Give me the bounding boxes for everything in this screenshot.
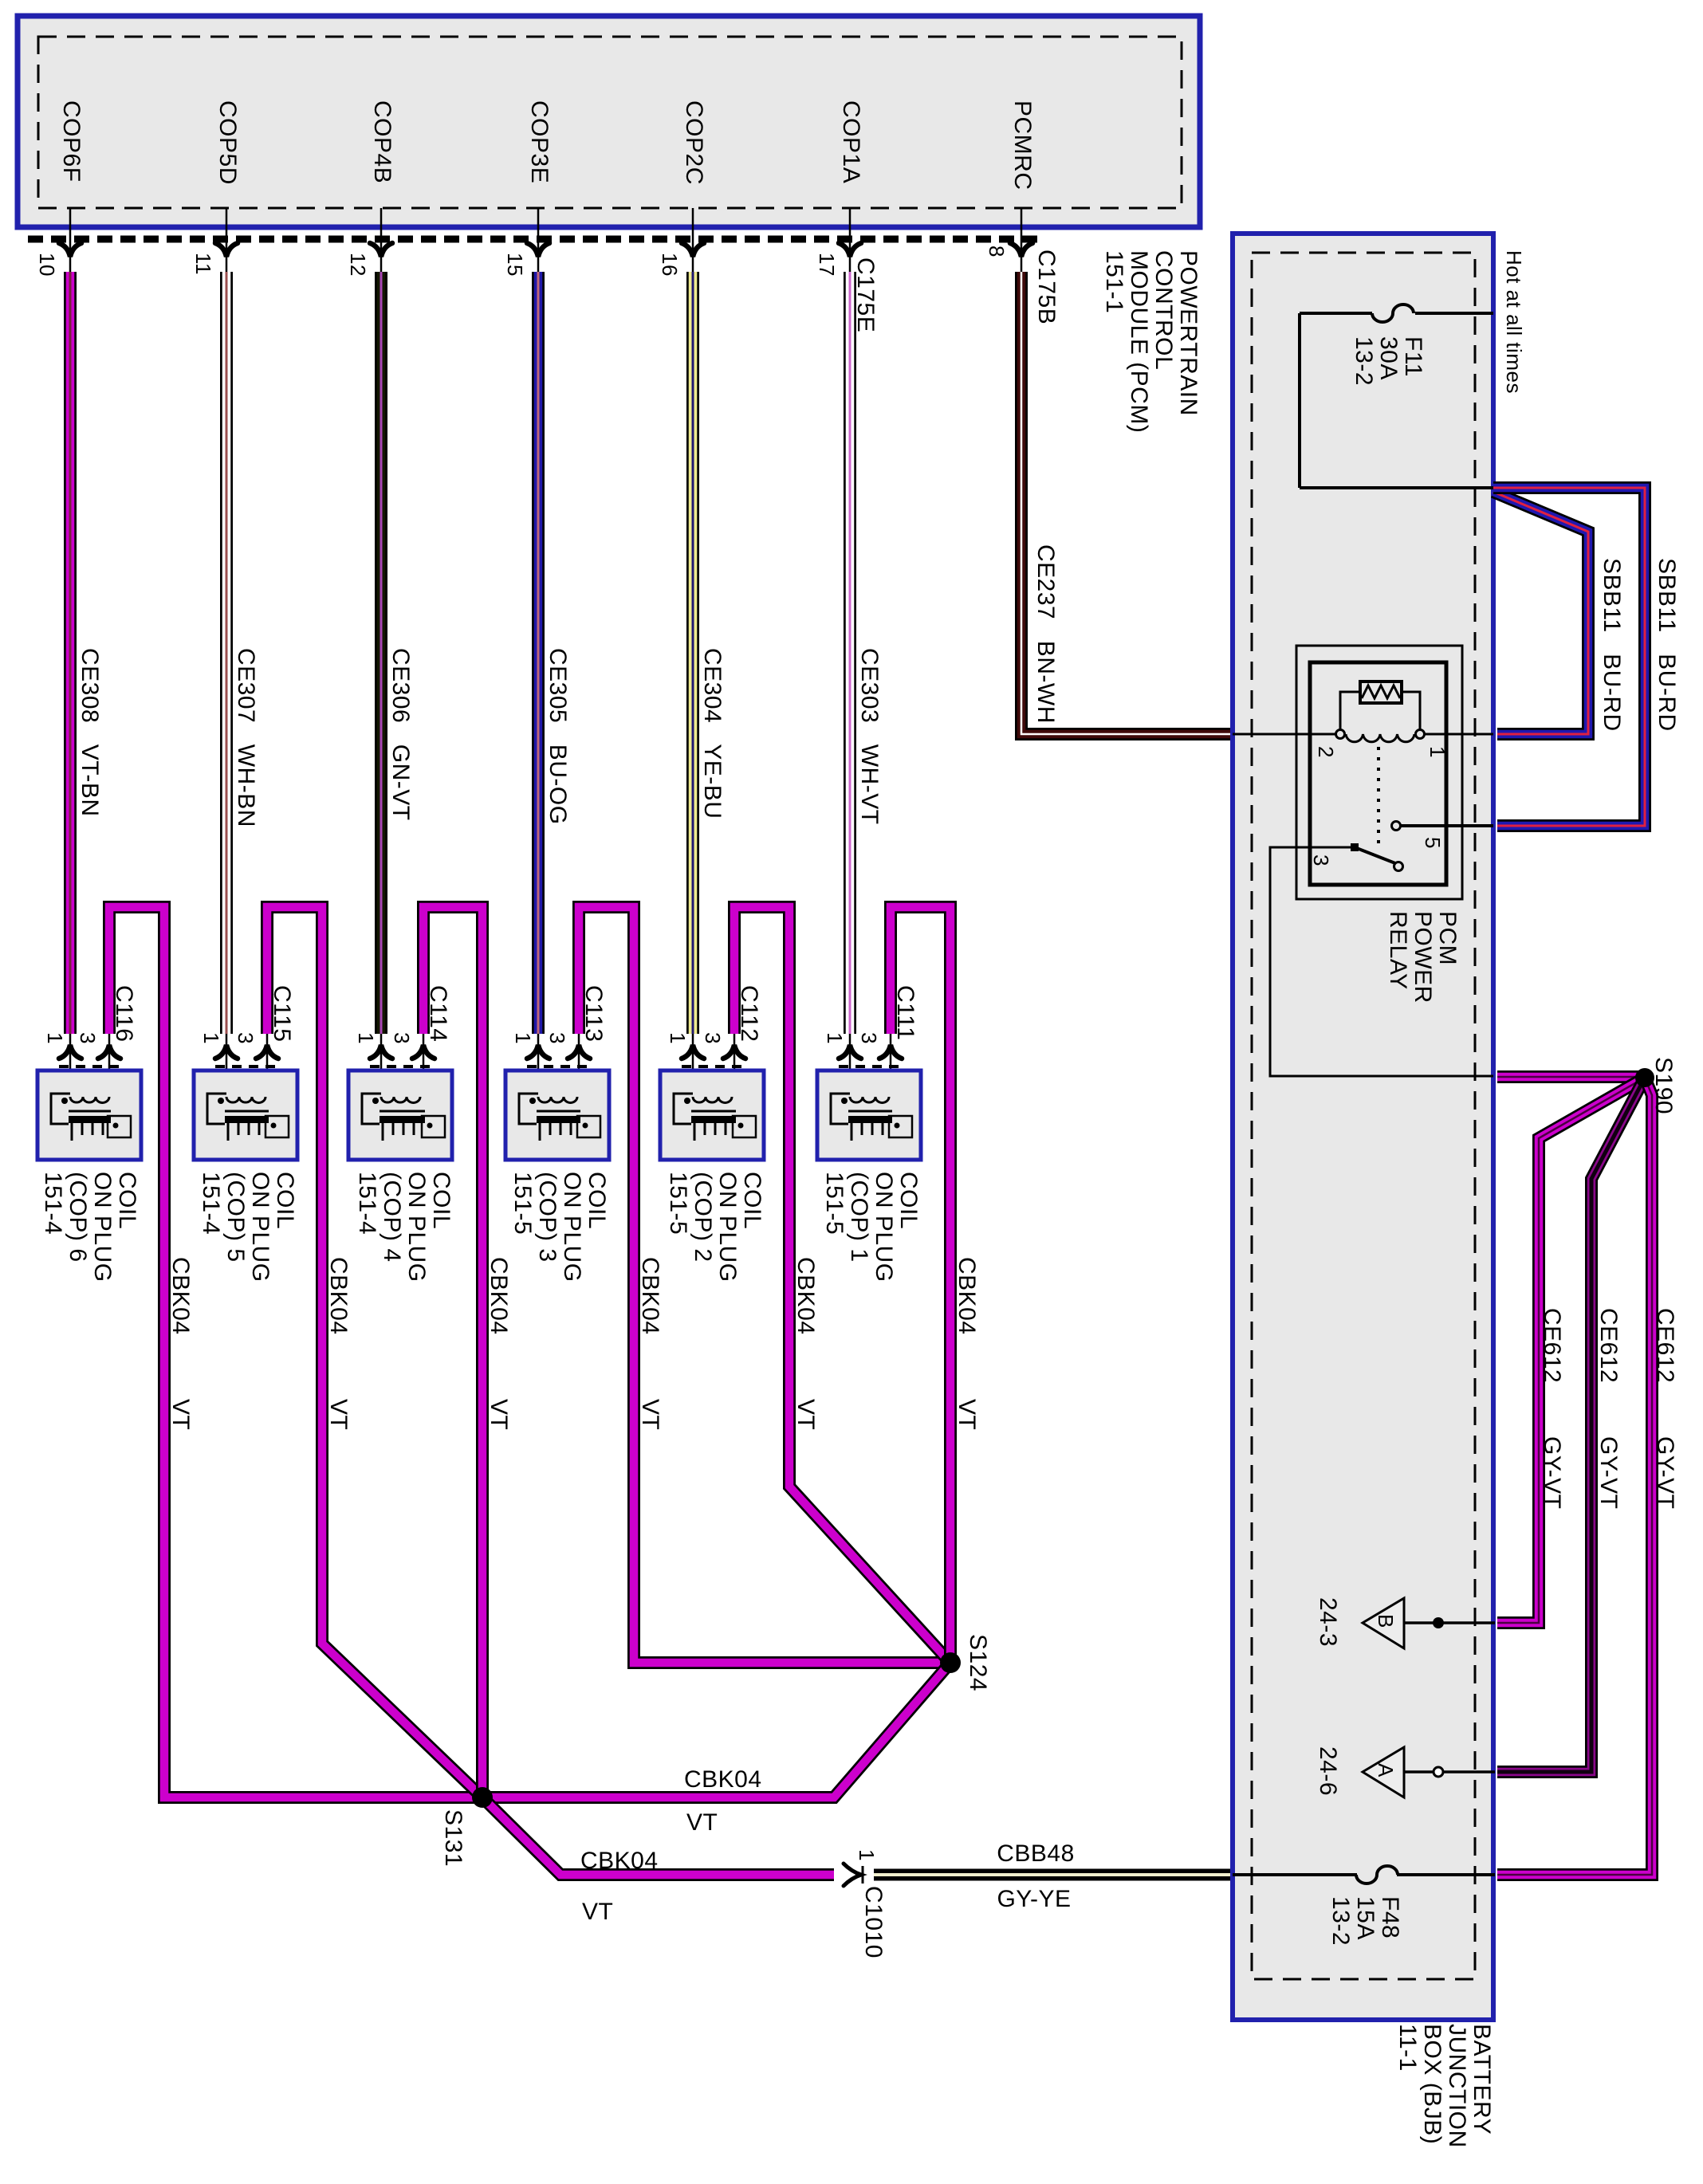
svg-text:16: 16 — [658, 253, 682, 277]
svg-text:COP5D: COP5D — [214, 100, 241, 185]
svg-text:15: 15 — [503, 253, 527, 277]
svg-text:CE305 BU-OG: CE305 BU-OG — [545, 648, 571, 825]
svg-text:CBK04: CBK04 — [580, 1848, 659, 1874]
svg-text:3: 3 — [857, 1032, 881, 1044]
svg-text:1: 1 — [511, 1032, 535, 1044]
svg-text:CBK04: CBK04 — [325, 1257, 352, 1335]
svg-text:CBK04: CBK04 — [486, 1257, 512, 1335]
svg-text:S190: S190 — [1650, 1057, 1677, 1114]
svg-text:11: 11 — [191, 253, 215, 275]
svg-text:VT: VT — [582, 1899, 613, 1925]
svg-text:3: 3 — [76, 1032, 100, 1044]
svg-text:3: 3 — [1309, 854, 1333, 866]
svg-text:CE304 YE-BU: CE304 YE-BU — [699, 648, 726, 819]
svg-text:CBK04: CBK04 — [167, 1257, 194, 1335]
svg-text:VT: VT — [325, 1399, 352, 1430]
svg-text:VT: VT — [167, 1399, 194, 1430]
svg-text:CE303 WH-VT: CE303 WH-VT — [856, 648, 883, 825]
svg-text:SBB11 BU-RD: SBB11 BU-RD — [1654, 558, 1680, 732]
svg-text:1: 1 — [199, 1032, 223, 1044]
svg-text:CE306 GN-VT: CE306 GN-VT — [387, 648, 414, 821]
svg-text:24-3: 24-3 — [1315, 1597, 1341, 1647]
svg-text:COP3E: COP3E — [526, 100, 553, 183]
svg-text:VT: VT — [954, 1399, 980, 1430]
svg-text:GY-VT: GY-VT — [1595, 1436, 1622, 1509]
svg-text:3: 3 — [545, 1032, 569, 1044]
svg-text:1: 1 — [855, 1849, 879, 1861]
svg-text:GY-VT: GY-VT — [1652, 1436, 1678, 1509]
svg-text:8: 8 — [985, 246, 1009, 257]
svg-text:VT: VT — [793, 1399, 819, 1430]
svg-text:1: 1 — [666, 1032, 690, 1044]
svg-text:1: 1 — [354, 1032, 378, 1044]
svg-text:COP2C: COP2C — [681, 100, 707, 185]
svg-text:CBB48: CBB48 — [997, 1840, 1075, 1867]
svg-text:5: 5 — [1421, 837, 1445, 849]
svg-text:CE612: CE612 — [1539, 1308, 1565, 1383]
svg-text:C175B: C175B — [1033, 249, 1060, 324]
svg-text:VT: VT — [686, 1809, 718, 1836]
svg-text:Hot at all times: Hot at all times — [1502, 250, 1526, 394]
svg-text:CBK04: CBK04 — [793, 1257, 819, 1335]
svg-text:CBK04: CBK04 — [954, 1257, 980, 1335]
svg-text:24-6: 24-6 — [1315, 1746, 1341, 1796]
svg-text:COP6F: COP6F — [58, 100, 85, 183]
svg-text:CBK04: CBK04 — [684, 1766, 762, 1793]
svg-text:10: 10 — [35, 253, 59, 277]
svg-text:2: 2 — [1314, 746, 1338, 758]
svg-text:17: 17 — [815, 253, 839, 277]
svg-text:F4815A13-2: F4815A13-2 — [1327, 1896, 1403, 1946]
svg-text:COP4B: COP4B — [369, 100, 395, 183]
svg-text:SBB11 BU-RD: SBB11 BU-RD — [1599, 558, 1625, 732]
svg-text:1: 1 — [823, 1032, 847, 1044]
svg-text:B: B — [1374, 1614, 1398, 1628]
svg-text:A: A — [1374, 1763, 1398, 1777]
svg-text:3: 3 — [701, 1032, 725, 1044]
svg-text:CE307 WH-BN: CE307 WH-BN — [233, 648, 259, 827]
svg-text:C175E: C175E — [852, 257, 879, 332]
svg-text:1: 1 — [43, 1032, 67, 1044]
svg-text:3: 3 — [390, 1032, 414, 1044]
svg-text:12: 12 — [346, 253, 370, 277]
svg-text:C1010: C1010 — [860, 1886, 887, 1958]
svg-text:3: 3 — [234, 1032, 258, 1044]
svg-text:S124: S124 — [965, 1634, 991, 1691]
svg-text:VT: VT — [637, 1399, 663, 1430]
svg-text:S131: S131 — [440, 1809, 466, 1867]
svg-text:PCMRC: PCMRC — [1009, 100, 1036, 191]
svg-text:GY-VT: GY-VT — [1539, 1436, 1565, 1509]
svg-text:GY-YE: GY-YE — [997, 1886, 1071, 1912]
svg-text:1: 1 — [1426, 746, 1449, 758]
svg-text:CE612: CE612 — [1652, 1308, 1678, 1383]
svg-text:CE237 BN-WH: CE237 BN-WH — [1032, 544, 1059, 724]
svg-text:VT: VT — [486, 1399, 512, 1430]
svg-text:CE612: CE612 — [1595, 1308, 1622, 1383]
svg-text:CE308 VT-BN: CE308 VT-BN — [77, 648, 103, 817]
svg-text:CBK04: CBK04 — [637, 1257, 663, 1335]
svg-text:COP1A: COP1A — [838, 100, 864, 183]
